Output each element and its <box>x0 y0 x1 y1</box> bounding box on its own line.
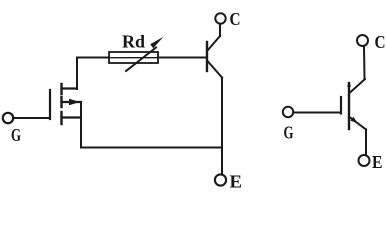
wire collector lead to terminal C <box>219 24 221 36</box>
svg-text:Rd: Rd <box>122 32 145 52</box>
wire gate lead (left) <box>13 117 50 119</box>
terminal C (left circuit) <box>215 13 225 23</box>
IGBT channel bar top tick <box>347 82 351 87</box>
transistor Q2 collector diagonal <box>208 36 221 51</box>
svg-text:G: G <box>284 123 294 143</box>
wire drain to resistor Rd <box>77 57 109 59</box>
terminal E (left circuit) <box>215 174 226 185</box>
wire resistor Rd to transistor base <box>158 57 207 59</box>
MOSFET Q1 drain contact segment <box>60 84 62 94</box>
resistor Rd adjustment arrowhead <box>150 37 163 49</box>
svg-text:C: C <box>375 32 386 52</box>
transistor Q2 base bar <box>206 42 208 71</box>
svg-text:G: G <box>11 125 21 145</box>
IGBT emitter diagonal <box>350 117 367 130</box>
IGBT gate plate <box>340 97 342 114</box>
wire collector lead to terminal C (IGBT symbol) <box>363 47 366 80</box>
resistor Rd body <box>109 52 158 63</box>
MOSFET Q1 body contact segment <box>60 97 62 107</box>
wire emitter lead to terminal E (IGBT symbol) <box>365 130 367 155</box>
MOSFET Q1 drain bar <box>62 87 78 89</box>
svg-text:E: E <box>372 152 383 172</box>
MOSFET Q1 source riser <box>80 102 82 148</box>
svg-text:C: C <box>230 9 241 29</box>
wire emitter drop to terminal E <box>221 78 223 175</box>
MOSFET Q1 body arrow <box>69 99 80 105</box>
IGBT collector diagonal <box>350 79 366 93</box>
wire bottom rail (source to emitter node) <box>81 147 222 149</box>
transistor Q2 emitter diagonal <box>208 61 223 78</box>
terminal E (IGBT symbol) <box>359 155 370 166</box>
terminal C (IGBT symbol) <box>357 35 368 46</box>
wire drain riser <box>76 58 78 90</box>
MOSFET Q1 body bar with arrow <box>62 101 82 103</box>
resistor Rd adjustment arrow shaft <box>126 48 156 72</box>
IGBT emitter arrow <box>350 117 357 123</box>
MOSFET Q1 source contact segment <box>60 112 62 124</box>
wire gate lead (IGBT symbol) <box>294 112 342 114</box>
svg-text:E: E <box>230 172 243 190</box>
terminal G (left circuit) <box>3 113 13 123</box>
IGBT channel bar <box>348 83 350 129</box>
MOSFET Q1 gate plate <box>49 90 51 119</box>
resistor Rd body midline <box>109 57 158 59</box>
terminal G (IGBT symbol) <box>283 107 293 117</box>
MOSFET Q1 source bar <box>62 116 82 118</box>
